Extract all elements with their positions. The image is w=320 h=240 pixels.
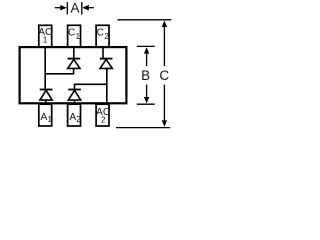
pin C2 (top right) [96, 25, 109, 47]
dimension A right tick [81, 2, 83, 15]
dimension label B [141, 68, 150, 83]
wire C2 down to D2 cathode [102, 47, 104, 59]
diode D3 (lower left) [40, 90, 53, 101]
svg-text:B: B [141, 68, 150, 83]
dimension A left tick [66, 2, 68, 15]
dimension C line upper segment with up arrow [162, 21, 167, 66]
svg-text:A: A [41, 112, 48, 123]
wire D4 cathode stub [74, 84, 76, 90]
package body outline [20, 47, 127, 103]
diode D1 (upper left) [68, 59, 81, 69]
wire AC1 down to D3 cathode [44, 47, 46, 90]
wire D1 anode stub [73, 68, 75, 74]
wire D4 anode down to A2 [74, 100, 76, 104]
pin C1 (top middle) [68, 25, 81, 47]
dimension C top tick [118, 19, 172, 21]
pin AC1 (top left) [38, 25, 52, 47]
wire D2 anode down to body bottom (AC2) [106, 68, 108, 104]
svg-text:C: C [159, 68, 169, 83]
wire D3 anode down to A1 [45, 100, 47, 104]
svg-text:1: 1 [76, 32, 81, 41]
svg-text:2: 2 [101, 116, 106, 125]
dimension A left arrow [55, 5, 67, 11]
dimension C bottom tick [116, 127, 170, 129]
svg-text:1: 1 [43, 35, 48, 44]
svg-text:2: 2 [104, 32, 109, 41]
dimension B line lower segment with down arrow [144, 85, 149, 104]
diode D2 (upper right) [100, 59, 113, 69]
dimension C line lower segment with down arrow [162, 85, 167, 127]
diode D4 (lower right) [68, 90, 81, 101]
svg-text:1: 1 [47, 115, 52, 124]
dimension label A [70, 1, 79, 16]
svg-text:C: C [68, 28, 75, 39]
dimension B bottom tick [137, 103, 155, 105]
wire branch D4 cathode to AC2 (horizontal) [75, 83, 108, 85]
dimension B line upper segment with up arrow [144, 47, 149, 66]
svg-text:C: C [97, 28, 104, 39]
pin A1 (bottom left) [39, 104, 53, 126]
wire C1 down to D1 cathode [73, 47, 75, 59]
svg-text:A: A [70, 1, 79, 16]
svg-text:2: 2 [76, 115, 81, 124]
dimension label C [159, 68, 169, 83]
dimension B top tick [137, 45, 155, 47]
pin AC2 (bottom right) [96, 104, 110, 126]
dimension A right arrow [82, 5, 94, 11]
wire branch AC1 to D1 anode (horizontal) [45, 73, 74, 75]
pin A2 (bottom middle) [68, 104, 82, 126]
